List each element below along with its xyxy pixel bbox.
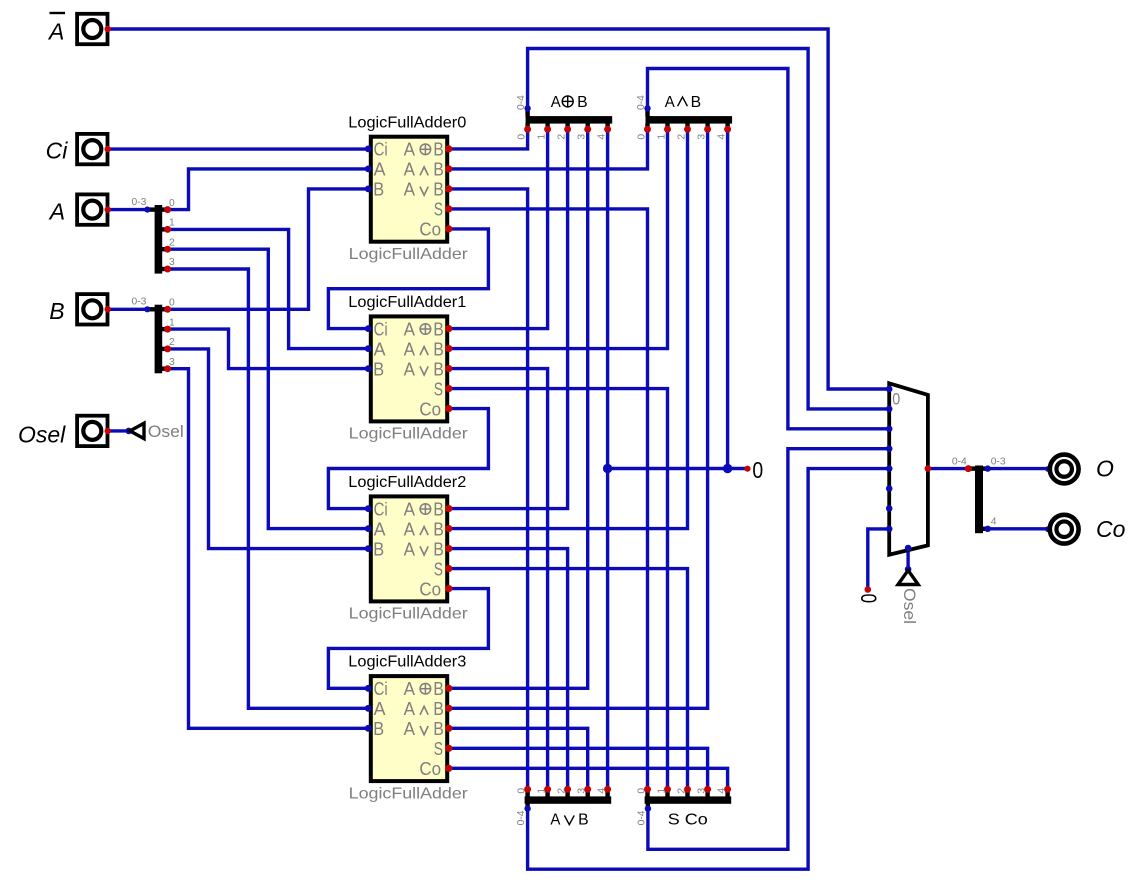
wire B bit3 to adder3.B: [168, 369, 369, 729]
multiplexer M1 body: [889, 383, 928, 554]
U3 output pin dot 1: [445, 705, 452, 712]
splitter AandB bit1 pin stub: [665, 123, 669, 129]
wire adder3 or out to splitter AorB bit3: [449, 728, 588, 789]
wire adder3 and out to splitter AandB bit3: [449, 129, 708, 708]
svg-text:1: 1: [536, 788, 547, 794]
splitter AorB bar: [525, 796, 612, 803]
svg-text:O: O: [1096, 456, 1114, 482]
splitter B input bar: [155, 305, 163, 374]
svg-text:LogicFullAdder: LogicFullAdder: [349, 606, 468, 623]
mux input pin dot in7: [886, 526, 893, 533]
mux output pin dot: [925, 465, 932, 472]
U1 output pin dot 3: [445, 385, 452, 392]
splitter O bar: [975, 466, 983, 534]
U3 pin label AorB vee symbol: [420, 726, 428, 735]
mux input pin dot in0: [886, 386, 893, 393]
svg-text:Ci: Ci: [374, 679, 388, 699]
splitter B input bit2 pin dot: [164, 345, 171, 352]
wire mux output to splitter O: [928, 467, 976, 470]
splitter AandB bus pin stub: [645, 110, 649, 117]
U0 input pin dot 0: [365, 146, 372, 153]
U0 output pin dot 3: [445, 205, 452, 212]
svg-text:0: 0: [169, 298, 175, 309]
splitter AandB bus pin dot: [644, 105, 650, 111]
svg-text:S: S: [434, 559, 443, 579]
svg-text:A: A: [404, 180, 415, 200]
svg-text:2: 2: [676, 134, 687, 140]
wire A bit0 to adder0.A: [168, 169, 369, 210]
splitter SCo bit3 pin stub: [705, 790, 709, 797]
input pin Osel: [77, 416, 111, 446]
svg-text:1: 1: [656, 134, 667, 140]
junction zero net at AxorB bit4: [603, 464, 612, 473]
splitter A input bus pin stub: [149, 207, 155, 211]
svg-text:3: 3: [169, 357, 175, 368]
splitter O bits0-3 pin stub: [983, 466, 988, 470]
svg-text:Osel: Osel: [148, 423, 184, 441]
wire mux select to Osel tunnel: [906, 548, 909, 569]
U0 pin label AxorB oplus symbol: [420, 144, 431, 155]
splitter A input bar: [155, 205, 163, 274]
splitter B input bus pin dot: [144, 306, 150, 312]
svg-text:B: B: [373, 539, 384, 559]
wire zero net horizontal to constant 0: [608, 467, 748, 470]
splitter AandB bit4 pin stub: [725, 123, 729, 129]
wire adder3.Co to splitter SCo bit4: [449, 768, 728, 789]
wire adder1.Co to adder2.Ci: [328, 409, 488, 509]
constant 0 bottom pin dot: [865, 586, 872, 593]
svg-text:A: A: [404, 339, 415, 359]
svg-text:A: A: [47, 18, 64, 44]
svg-text:0-3: 0-3: [132, 197, 147, 208]
wire AorB bus to mux in4: [528, 469, 889, 870]
splitter SCo bit0 pin dot: [644, 786, 651, 793]
svg-text:0-4: 0-4: [637, 810, 648, 825]
U3 input pin dot 0: [365, 685, 372, 692]
svg-text:S Co: S Co: [668, 811, 708, 828]
svg-text:A: A: [404, 699, 415, 719]
svg-text:Co: Co: [419, 759, 441, 779]
tunnel Osel left: [125, 423, 144, 438]
svg-text:4: 4: [596, 134, 607, 140]
splitter B input bit1 pin dot: [164, 326, 171, 333]
svg-text:3: 3: [696, 134, 707, 140]
svg-text:LogicFullAdder: LogicFullAdder: [349, 246, 468, 263]
svg-text:2: 2: [556, 134, 567, 140]
input pin Ci: [77, 134, 111, 164]
wire adder0 or out to splitter AorB bit0: [449, 189, 528, 789]
U2 output pin dot 0: [445, 505, 452, 512]
svg-text:Ci: Ci: [374, 319, 388, 339]
svg-text:Ci: Ci: [374, 499, 388, 519]
mux input pin dot in2: [886, 426, 893, 433]
splitter A input bit0 pin stub: [162, 207, 168, 211]
svg-text:B: B: [373, 180, 384, 200]
splitter AandB bit3 pin dot: [704, 126, 711, 133]
svg-text:Co: Co: [1096, 516, 1126, 542]
svg-text:A: A: [404, 519, 415, 539]
U0 output pin dot 2: [445, 185, 452, 192]
svg-text:Co: Co: [419, 220, 441, 240]
U0 output pin dot 4: [445, 225, 452, 232]
svg-text:S: S: [434, 739, 443, 759]
label A-bar overline: [50, 12, 66, 14]
full adder U1 LogicFullAdder1 box: [371, 316, 447, 421]
svg-text:A: A: [48, 199, 65, 225]
splitter O bits0-3 pin dot: [985, 465, 991, 471]
svg-text:LogicFullAdder0: LogicFullAdder0: [348, 114, 466, 131]
svg-text:A: A: [404, 539, 415, 559]
splitter AandB bit0 pin stub: [645, 123, 649, 129]
svg-text:1: 1: [169, 218, 175, 229]
svg-text:A: A: [404, 719, 415, 739]
splitter A input bit2 pin stub: [162, 247, 168, 251]
svg-text:B: B: [433, 699, 443, 719]
svg-text:4: 4: [596, 788, 607, 794]
svg-text:A: A: [665, 94, 676, 111]
U2 pin label AxorB oplus symbol: [420, 504, 431, 515]
svg-text:0: 0: [516, 134, 527, 140]
wire B bit0 to adder0.B: [168, 189, 369, 309]
splitter B input bit3 pin dot: [164, 365, 171, 372]
wire net Osel: input Osel to tunnel: [109, 429, 129, 432]
splitter A input bit3 pin dot: [164, 266, 171, 273]
svg-text:B: B: [433, 499, 443, 519]
svg-text:1: 1: [169, 317, 175, 328]
svg-text:Ci: Ci: [374, 140, 388, 160]
splitter AorB label vee symbol: [564, 815, 574, 824]
splitter AxorB label oplus symbol: [562, 96, 573, 107]
splitter SCo bus pin dot: [645, 805, 651, 811]
U2 output pin dot 3: [445, 565, 452, 572]
svg-text:B: B: [433, 679, 443, 699]
svg-text:B: B: [433, 719, 443, 739]
svg-text:Osel: Osel: [18, 422, 66, 448]
U3 pin label AandB wedge symbol: [420, 706, 428, 715]
svg-text:0: 0: [636, 788, 647, 794]
svg-text:A: A: [404, 160, 415, 180]
splitter AxorB bit0 pin stub: [525, 123, 529, 129]
splitter AandB bar: [646, 116, 733, 124]
svg-text:A: A: [404, 140, 415, 160]
wire B bit1 to adder1.B: [168, 329, 369, 369]
svg-text:0-3: 0-3: [132, 297, 147, 308]
svg-text:B: B: [433, 359, 443, 379]
svg-text:2: 2: [556, 788, 567, 794]
splitter AxorB bit4 pin stub: [605, 123, 609, 129]
svg-text:0: 0: [516, 788, 527, 794]
splitter AandB bit1 pin dot: [664, 126, 671, 133]
svg-text:A: A: [550, 811, 561, 828]
splitter AorB bus pin stub: [525, 803, 529, 809]
U1 pin label AxorB oplus symbol: [420, 324, 431, 335]
U2 output pin dot 2: [445, 545, 452, 552]
wire A bit2 to adder2.A: [168, 249, 369, 528]
svg-text:A: A: [404, 679, 415, 699]
U1 input pin dot 1: [365, 345, 372, 352]
splitter A input bus pin dot: [144, 207, 150, 213]
input pin A: [77, 194, 111, 224]
splitter SCo bit1 pin dot: [664, 786, 671, 793]
U3 output pin dot 3: [445, 745, 452, 752]
splitter A input bit3 pin stub: [162, 267, 168, 271]
svg-text:A: A: [374, 519, 386, 539]
splitter AxorB bit4 pin dot: [604, 126, 611, 133]
wire A bit3 to adder3.A: [168, 269, 369, 708]
svg-text:LogicFullAdder3: LogicFullAdder3: [348, 654, 466, 671]
U1 pin label AandB wedge symbol: [420, 347, 428, 356]
splitter AxorB bit1 pin dot: [544, 126, 551, 133]
svg-text:3: 3: [577, 788, 588, 794]
svg-text:Ci: Ci: [46, 138, 69, 164]
wire adder1.S to splitter SCo bit1: [449, 389, 668, 790]
wire adder0.Co to adder1.Ci: [328, 229, 488, 329]
splitter B input bit2 pin stub: [162, 347, 168, 351]
wire adder2.Co to adder3.Ci: [328, 589, 488, 689]
wire adder0.S to splitter SCo bit0: [449, 209, 648, 789]
svg-text:B: B: [373, 359, 384, 379]
svg-text:Co: Co: [419, 399, 441, 419]
svg-text:S: S: [434, 379, 443, 399]
svg-text:0: 0: [856, 594, 881, 604]
U3 output pin dot 4: [445, 765, 452, 772]
output pin Co: [1045, 515, 1079, 544]
splitter SCo bit0 pin stub: [645, 790, 649, 797]
splitter AorB bit1 pin stub: [545, 790, 549, 797]
splitter AandB bit2 pin dot: [684, 126, 691, 133]
splitter AandB bit2 pin stub: [685, 123, 689, 129]
U1 output pin dot 0: [445, 325, 452, 332]
wire net Ci: input Ci to LogicFullAdder0.Ci: [109, 147, 369, 150]
input pin B: [77, 294, 111, 324]
U1 input pin dot 0: [365, 325, 372, 332]
splitter AxorB bit3 pin dot: [584, 126, 591, 133]
splitter AxorB bit2 pin dot: [564, 126, 571, 133]
splitter AorB bus pin dot: [524, 805, 530, 811]
wire A bit1 to adder1.A: [168, 229, 369, 348]
full adder U3 LogicFullAdder3 box: [371, 676, 447, 781]
splitter O bit4 pin stub: [983, 527, 988, 531]
splitter AorB bit4 pin stub: [605, 790, 609, 797]
svg-text:A: A: [551, 94, 562, 111]
wire adder2 or out to splitter AorB bit2: [449, 549, 568, 790]
U1 output pin dot 2: [445, 365, 452, 372]
wire net B: input B to splitter: [109, 308, 153, 311]
splitter AxorB bit3 pin stub: [586, 123, 590, 129]
wire AandB bus to mux in2: [648, 69, 889, 429]
svg-text:B: B: [433, 339, 443, 359]
U2 pin label AandB wedge symbol: [420, 527, 428, 536]
svg-text:B: B: [433, 140, 443, 160]
svg-text:A: A: [404, 499, 415, 519]
U3 input pin dot 1: [365, 705, 372, 712]
wire zero net vertical AxorB bit4 to AorB bit4: [606, 129, 609, 789]
svg-text:B: B: [49, 298, 64, 324]
svg-text:S: S: [434, 200, 443, 220]
junction zero net at AandB bit4: [723, 464, 732, 473]
constant 0 mid pin dot: [744, 466, 750, 472]
splitter AorB bit3 pin dot: [584, 786, 591, 793]
splitter SCo bit4 pin stub: [725, 790, 729, 797]
svg-text:A: A: [374, 699, 386, 719]
svg-text:A: A: [374, 339, 386, 359]
splitter AxorB bus pin stub: [525, 110, 529, 117]
wire adder3 xor out to splitter AxorB bit3: [449, 129, 588, 688]
U2 input pin dot 2: [365, 545, 372, 552]
svg-text:3: 3: [696, 788, 707, 794]
U0 input pin dot 1: [365, 166, 372, 173]
splitter AorB bit4 pin dot: [604, 786, 611, 793]
wire constant 0 to mux in7: [868, 529, 889, 590]
U0 pin label AandB wedge symbol: [420, 167, 428, 176]
U0 output pin dot 1: [445, 165, 452, 172]
splitter AorB bit1 pin dot: [544, 786, 551, 793]
wire adder0 and out to splitter AandB bit0: [449, 129, 648, 169]
splitter A input bit0 pin dot: [164, 206, 171, 213]
wire adder1 or out to splitter AorB bit1: [449, 369, 548, 790]
splitter AorB bit3 pin stub: [586, 790, 590, 797]
splitter A input bit1 pin stub: [162, 227, 168, 231]
svg-text:B: B: [433, 180, 443, 200]
svg-text:B: B: [691, 94, 702, 111]
mux input pin dot in4: [886, 465, 893, 472]
svg-text:A: A: [374, 160, 386, 180]
U2 input pin dot 1: [365, 525, 372, 532]
input pin A-bar: [77, 14, 111, 44]
svg-text:LogicFullAdder2: LogicFullAdder2: [348, 474, 466, 491]
splitter AxorB bit1 pin stub: [545, 123, 549, 129]
svg-text:LogicFullAdder1: LogicFullAdder1: [348, 294, 466, 311]
splitter O bus pin dot: [965, 465, 972, 472]
svg-text:B: B: [578, 811, 589, 828]
splitter AandB label wedge symbol: [678, 97, 688, 106]
svg-text:0: 0: [636, 134, 647, 140]
mux input pin dot in5: [886, 485, 893, 492]
wire net Abar: input A-bar to mux in0: [109, 29, 889, 389]
U1 pin label AorB vee symbol: [420, 366, 428, 375]
U2 output pin dot 4: [445, 585, 452, 592]
splitter B input bus pin stub: [149, 307, 155, 311]
wire splitter O bit 4 to output Co: [988, 527, 1049, 530]
wire AxorB bus to mux in1: [528, 49, 889, 409]
mux input pin dot in6: [886, 505, 893, 512]
svg-text:A: A: [404, 319, 415, 339]
mux input pin dot in1: [886, 406, 893, 413]
svg-text:2: 2: [169, 237, 175, 248]
svg-text:0: 0: [752, 457, 763, 483]
wire SCo bus to mux in3: [648, 449, 889, 850]
U2 input pin dot 0: [365, 505, 372, 512]
splitter SCo bit3 pin dot: [704, 786, 711, 793]
splitter B input bit3 pin stub: [162, 367, 168, 371]
splitter AandB bit4 pin dot: [724, 126, 731, 133]
splitter O bit4 pin dot: [985, 526, 991, 532]
wire net A: input A to splitter: [109, 208, 153, 211]
wire B bit2 to adder2.B: [168, 349, 369, 549]
splitter B input bit0 pin stub: [162, 307, 168, 311]
svg-text:0-3: 0-3: [991, 456, 1006, 467]
splitter AxorB bar: [526, 116, 613, 124]
svg-text:B: B: [433, 160, 443, 180]
U0 pin label AorB vee symbol: [420, 187, 428, 196]
svg-text:A: A: [404, 359, 415, 379]
splitter B input bit1 pin stub: [162, 327, 168, 331]
splitter AorB bit2 pin stub: [565, 790, 569, 797]
U1 output pin dot 1: [445, 345, 452, 352]
svg-text:1: 1: [656, 788, 667, 794]
svg-text:4: 4: [991, 516, 997, 527]
splitter AxorB bit0 pin dot: [524, 126, 531, 133]
svg-text:0-4: 0-4: [952, 456, 967, 467]
splitter SCo bit4 pin dot: [724, 786, 731, 793]
full adder U2 LogicFullAdder2 box: [371, 496, 447, 601]
svg-text:B: B: [433, 539, 443, 559]
svg-text:2: 2: [169, 337, 175, 348]
wire zero net branch AandB bit4: [726, 129, 729, 468]
wire adder3.S to splitter SCo bit3: [449, 748, 708, 789]
splitter AorB bit0 pin dot: [524, 786, 531, 793]
svg-text:0: 0: [892, 391, 900, 409]
splitter A input bit1 pin dot: [164, 226, 171, 233]
svg-text:B: B: [433, 319, 443, 339]
splitter A input bit2 pin dot: [164, 246, 171, 253]
U0 input pin dot 2: [365, 186, 372, 193]
svg-text:0: 0: [169, 198, 175, 209]
splitter SCo bar: [645, 796, 732, 803]
U3 output pin dot 0: [445, 685, 452, 692]
svg-text:B: B: [373, 719, 384, 739]
U2 pin label AorB vee symbol: [420, 546, 428, 555]
wire adder2 xor out to splitter AxorB bit2: [449, 129, 568, 508]
U3 output pin dot 2: [445, 725, 452, 732]
splitter SCo bit2 pin stub: [685, 790, 689, 797]
splitter SCo bit1 pin stub: [665, 790, 669, 797]
svg-text:0-4: 0-4: [516, 95, 527, 110]
U1 input pin dot 2: [365, 365, 372, 372]
splitter AxorB bus pin dot: [524, 105, 530, 111]
wire adder2 and out to splitter AandB bit2: [449, 129, 688, 528]
wire adder0 xor out to splitter AxorB bit0: [449, 129, 528, 149]
splitter AandB bit3 pin stub: [705, 123, 709, 129]
svg-text:4: 4: [716, 134, 727, 140]
wire adder1 and out to splitter AandB bit1: [449, 129, 668, 348]
wire splitter O bits 0-3 to output O: [988, 467, 1049, 470]
mux input pin dot in3: [886, 445, 893, 452]
svg-text:LogicFullAdder: LogicFullAdder: [349, 785, 468, 802]
U3 input pin dot 2: [365, 725, 372, 732]
svg-text:B: B: [433, 519, 443, 539]
splitter AandB bit0 pin dot: [644, 126, 651, 133]
svg-text:4: 4: [716, 788, 727, 794]
U0 output pin dot 0: [445, 145, 452, 152]
splitter SCo bit2 pin dot: [684, 786, 691, 793]
full adder U0 LogicFullAdder0 box: [371, 137, 447, 242]
svg-text:0-4: 0-4: [636, 95, 647, 110]
splitter O bus pin stub: [969, 466, 976, 470]
U3 pin label AxorB oplus symbol: [420, 683, 431, 694]
output pin O: [1045, 455, 1079, 484]
svg-text:Osel: Osel: [900, 588, 918, 624]
splitter B input bit0 pin dot: [164, 306, 171, 313]
splitter AxorB bit2 pin stub: [565, 123, 569, 129]
U1 output pin dot 4: [445, 405, 452, 412]
svg-text:0-4: 0-4: [516, 810, 527, 825]
U2 output pin dot 1: [445, 525, 452, 532]
mux select pin dot: [905, 545, 912, 552]
splitter AorB bit0 pin stub: [525, 790, 529, 797]
svg-text:B: B: [577, 94, 588, 111]
svg-text:2: 2: [676, 788, 687, 794]
